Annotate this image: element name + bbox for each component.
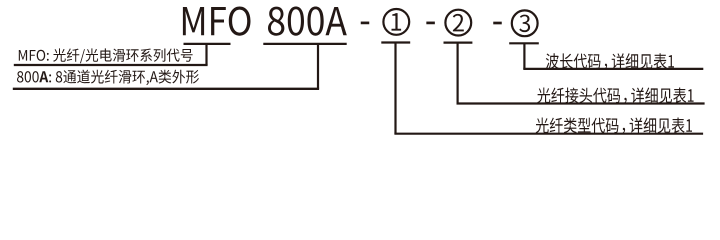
circled number 2 (445, 10, 471, 36)
underline under circled 3 (509, 42, 539, 44)
dash separator 3 (493, 22, 502, 25)
connector from circled 1 to fiber type label (394, 43, 396, 134)
connector from 800A to channels label (317, 44, 319, 89)
underline under circled 2 (444, 41, 473, 43)
wavelength label text (546, 53, 674, 69)
dash separator 1 (361, 22, 370, 25)
connector from circled 3 to wavelength label (523, 43, 525, 69)
underline under 800A (263, 43, 346, 45)
underline under circled 1 (381, 41, 410, 43)
underline of fiber type label (394, 133, 703, 135)
dash separator 2 (426, 22, 435, 25)
underline of wavelength label (523, 68, 703, 70)
connector from circled 2 to connector-code label (457, 43, 459, 104)
underline of channels label (13, 88, 319, 90)
channels label text "800A: ..." (17, 70, 199, 86)
circled number 3 (512, 10, 538, 36)
connector-code label text (537, 88, 693, 104)
circled number 1 (383, 9, 409, 35)
fiber type label text (536, 118, 692, 134)
connector from MFO to series label (205, 44, 207, 65)
title text "MFO" (183, 7, 251, 36)
series label text "MFO: ..." (19, 48, 193, 63)
underline of connector-code label (457, 102, 705, 104)
underline under MFO (184, 43, 231, 45)
title text "800A" (268, 7, 347, 36)
underline of series label (14, 64, 208, 66)
